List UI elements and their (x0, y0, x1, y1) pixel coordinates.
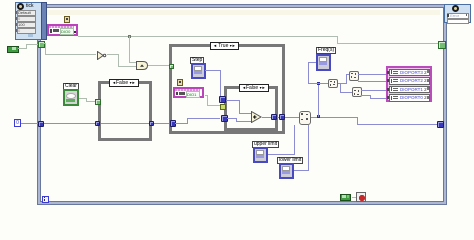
wire 0 to left blue tunnel (21, 123, 38, 124)
wire lower limit to In Range (294, 170, 309, 171)
tunnel small case left (95, 121, 100, 126)
Step control (190, 57, 204, 64)
quotient node C (352, 87, 362, 97)
selector tunnel inner case (220, 104, 226, 110)
wires node B to DIOPORT rows (358, 74, 387, 75)
wire Clear to small case selector (79, 98, 87, 99)
tick text (26, 3, 34, 9)
tunnel small case right (149, 121, 154, 126)
NOT gate (97, 51, 107, 60)
add function (251, 111, 262, 123)
junction on DIO0 wire (128, 35, 131, 38)
quotient node A (328, 79, 338, 88)
timed loop input node (15, 2, 46, 40)
blue tunnel on left loop border (38, 121, 44, 127)
tunnel inner case upper (219, 96, 226, 103)
input node right attachment strip (41, 2, 47, 40)
case label False (109, 79, 139, 87)
tag icon above DIO1 (177, 79, 183, 86)
pink node DIO1 (173, 87, 204, 98)
wires inside inner case (226, 100, 240, 101)
wire stop to conditional terminal (352, 197, 357, 198)
selector tunnel (True case) (169, 64, 174, 69)
long boolean wire from DIO0 (78, 36, 338, 37)
numeric constant 0 (14, 119, 21, 127)
wire Freq to riser (308, 62, 316, 63)
quotient node B (349, 71, 359, 81)
lower limit control (277, 157, 303, 164)
timed loop border (37, 4, 447, 205)
wire add output (262, 117, 271, 118)
wire NOT to AND (107, 54, 119, 55)
DIOPORT0 row (389, 94, 430, 102)
wire Step to inner tunnel (205, 70, 221, 71)
boolean constant (outside loop, left) (7, 46, 19, 53)
wire drop to AND gate (129, 36, 130, 63)
wire from In Range to right tunnel (311, 117, 358, 118)
DIOPORT1 row (389, 86, 430, 94)
loop conditional terminal (356, 192, 366, 202)
DIOPORT write stack (386, 66, 432, 102)
main blue wire to True case (44, 123, 170, 124)
input node row icons (15, 11, 17, 14)
wires node C to DIOPORT rows (361, 90, 387, 91)
iteration terminal i (42, 196, 49, 203)
DIOPORT2 row (389, 77, 430, 85)
blue tunnel on right loop border (437, 121, 444, 128)
wire inside True case (175, 123, 188, 124)
Clear control (63, 83, 79, 90)
input node value rows (17, 10, 36, 16)
case structure True (169, 44, 285, 134)
clock icon (output node) (452, 5, 459, 12)
wire constant to left green tunnel (18, 48, 27, 49)
tunnel inner case right (271, 114, 277, 120)
tunnel True case right (279, 114, 285, 120)
tunnel inner case lower (221, 115, 228, 122)
Freq indicator (316, 47, 336, 54)
pink node DIO0 (47, 24, 78, 36)
green tunnel on left loop border (38, 41, 45, 48)
wire from left green tunnel to NOT gate (43, 43, 46, 44)
wire upper limit to In Range (268, 154, 295, 155)
junction dots on riser (317, 115, 320, 118)
inner case label False (239, 84, 269, 92)
In Range and Coerce (299, 111, 311, 125)
AND gate (136, 61, 148, 70)
wire DIO1 to inner selector (205, 95, 208, 96)
case label True (210, 42, 239, 50)
wires from node A (338, 83, 347, 84)
inner case structure False (224, 86, 278, 131)
riser wire to Freq/comparators (318, 83, 319, 117)
upper limit control (252, 141, 279, 148)
stop boolean control (340, 194, 351, 201)
small case structure False (98, 81, 152, 141)
green tunnel on right loop border (438, 41, 446, 49)
tunnel True case left (170, 120, 176, 127)
timed loop output node (444, 4, 471, 23)
DIOPORT3 row (389, 69, 430, 77)
clock icon (input node) (17, 3, 24, 10)
tag icon above DIO0 (64, 16, 70, 23)
selector tunnel (small case) (95, 99, 101, 105)
wire AND to True case selector (148, 65, 169, 66)
